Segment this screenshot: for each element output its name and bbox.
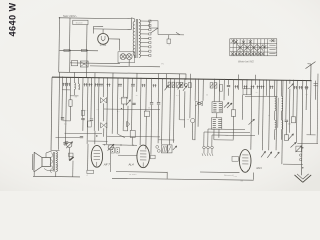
svg-text:5 W: 5 W [234, 176, 238, 178]
svg-text:EM4: EM4 [257, 167, 263, 170]
svg-text:100: 100 [288, 123, 291, 125]
svg-text:0,5: 0,5 [64, 124, 67, 126]
svg-text:0,1: 0,1 [97, 109, 100, 111]
svg-text:0,5: 0,5 [176, 95, 179, 97]
svg-text:ca. 4040: ca. 4040 [129, 174, 136, 176]
svg-text:0,1: 0,1 [306, 94, 309, 96]
svg-text:5000: 5000 [122, 98, 126, 100]
svg-text:AL4: AL4 [128, 163, 135, 167]
svg-text:110-220: 110-220 [76, 23, 83, 25]
svg-text:G 354: G 354 [100, 44, 107, 47]
svg-text:Werte bei 9V2: Werte bei 9V2 [238, 60, 254, 63]
svg-text:0,1: 0,1 [85, 110, 88, 112]
svg-text:Netzanschl.: Netzanschl. [224, 174, 234, 177]
svg-text:0,1: 0,1 [226, 135, 229, 137]
svg-text:50: 50 [148, 108, 150, 110]
svg-text:0,1: 0,1 [120, 98, 123, 100]
svg-text:Netz 220V~: Netz 220V~ [63, 14, 78, 18]
svg-text:4: 4 [87, 175, 88, 177]
svg-text:AF 7: AF 7 [103, 162, 110, 166]
svg-text:5k: 5k [268, 115, 270, 117]
svg-text:2k: 2k [256, 92, 258, 94]
svg-text:30: 30 [136, 95, 138, 97]
svg-text:4640 W: 4640 W [8, 2, 18, 36]
svg-text:50: 50 [206, 95, 208, 97]
